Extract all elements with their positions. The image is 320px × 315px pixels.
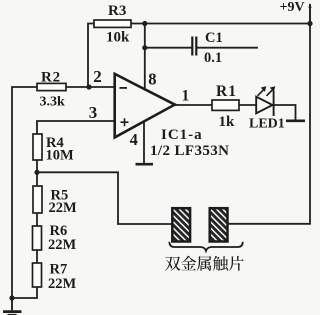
pin4 supply bar [136, 163, 154, 166]
bimetal pad left [172, 208, 190, 241]
wire LED cathode to negative terminal [274, 105, 296, 120]
wire R6 to R7 [36, 250, 38, 263]
wire top rail to +9V [145, 5, 310, 24]
svg-text:R1: R1 [216, 83, 237, 100]
ground [3, 298, 22, 315]
wire pin 3 to R4 [37, 121, 114, 134]
svg-text:IC1-a: IC1-a [161, 127, 203, 143]
resistor R6 [33, 226, 42, 250]
svg-text:0.1: 0.1 [204, 50, 222, 66]
svg-text:22M: 22M [48, 237, 77, 253]
resistor R7 [33, 263, 42, 287]
svg-text:R2: R2 [41, 70, 61, 86]
op-amp minus input sign [120, 87, 128, 89]
svg-text:3: 3 [89, 103, 98, 122]
LED1 cathode bar [273, 91, 275, 116]
svg-text:1: 1 [182, 88, 190, 105]
LED1 diode triangle [256, 97, 272, 114]
node top right corner [307, 21, 312, 26]
resistor R2 [37, 83, 66, 90]
svg-text:3.3k: 3.3k [40, 95, 66, 110]
wire R7 to ground rail [12, 287, 37, 298]
wire V+ vertical to pin 8 [144, 24, 146, 90]
svg-text:+9V: +9V [280, 0, 305, 15]
wire R2 left + left rail [12, 87, 37, 298]
op-amp U1 triangle [115, 74, 175, 137]
svg-text:22M: 22M [49, 200, 78, 216]
node C1 branch junction [142, 45, 147, 50]
wire R5 to R6 [36, 213, 38, 226]
node R3 top rail junction [142, 21, 147, 26]
svg-text:22M: 22M [48, 276, 77, 292]
wire right rail down [228, 24, 310, 224]
capacitor C1 plates [192, 37, 196, 56]
svg-text:R3: R3 [108, 3, 126, 19]
wire R3 left to pin2 node [88, 24, 94, 88]
svg-text:1/2 LF353N: 1/2 LF353N [150, 143, 229, 159]
brace under pads [169, 242, 243, 251]
wire R4 to R5 [36, 160, 38, 186]
svg-text:10M: 10M [46, 148, 75, 164]
LED negative terminal bar [286, 120, 305, 123]
svg-text:2: 2 [93, 67, 102, 86]
node ground rail [9, 295, 14, 300]
node pin2 [86, 84, 91, 89]
svg-text:1k: 1k [219, 114, 236, 130]
resistor R1 [212, 100, 239, 110]
svg-text:C1: C1 [205, 30, 223, 46]
wire R1 to LED anode [239, 104, 256, 106]
resistor R4 [33, 134, 42, 160]
svg-text:8: 8 [148, 70, 156, 89]
wire R2 right to pin 2 [66, 86, 114, 88]
op-amp plus input sign [121, 118, 129, 126]
bimetal pad right [210, 208, 228, 241]
svg-text:10k: 10k [106, 30, 130, 46]
label bimetal contact strips (双金属触片) [165, 256, 244, 271]
wire C1 branch [145, 47, 257, 49]
svg-text:4: 4 [130, 130, 138, 149]
svg-text:LED1: LED1 [249, 117, 285, 132]
wire pin 4 down [143, 121, 145, 164]
wire R3 right to top rail [131, 23, 145, 25]
resistor R3 [94, 20, 131, 27]
wire divider tap to left pad [37, 172, 172, 224]
+9V arrow tip [308, 3, 311, 8]
wire op-amp output to R1 [175, 104, 212, 106]
LED1 emission arrows [258, 86, 276, 96]
node divider tap [34, 170, 39, 175]
resistor R5 [33, 186, 42, 213]
